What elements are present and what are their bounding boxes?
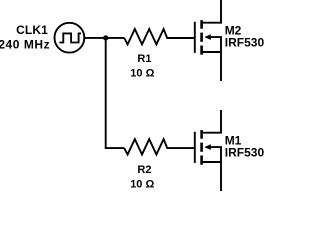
svg-text:IRF530: IRF530 [225,36,264,50]
svg-text:10 Ω: 10 Ω [130,68,154,80]
svg-text:R2: R2 [137,164,151,176]
svg-text:CLK1: CLK1 [16,23,48,37]
svg-text:IRF530: IRF530 [225,146,264,160]
svg-text:R1: R1 [137,53,151,65]
svg-text:10 Ω: 10 Ω [130,179,154,191]
svg-text:240 MHz: 240 MHz [0,37,50,51]
